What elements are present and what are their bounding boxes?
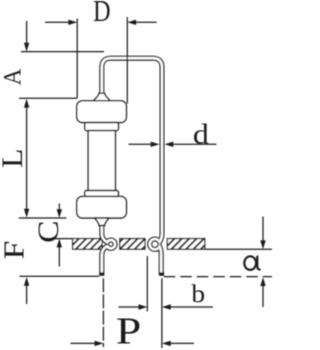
dimension C: bottom arrow pointing up at board top bbox=[58, 247, 60, 267]
dimension d: left arrow bbox=[129, 143, 153, 145]
dimension a: bottom arrow pointing up at tip line bbox=[262, 284, 264, 307]
dimension A: top arrow pointing down bbox=[26, 21, 28, 44]
dimension b: right arrow + tail bbox=[170, 306, 214, 308]
wire: bottom kinked lead through PCB (left) bbox=[102, 224, 115, 275]
component body: upper neck bbox=[85, 123, 119, 131]
svg-text:D: D bbox=[93, 0, 110, 29]
dimension D: left arrow bbox=[45, 21, 70, 23]
dimension d: right arrow + underline tail bbox=[172, 143, 217, 145]
dimension a: top arrow pointing down at board bottom bbox=[262, 217, 264, 242]
component body: bottom terminal nub bbox=[95, 218, 108, 226]
wire: long kinked lead from top terminal through PCB (right) bbox=[102, 58, 162, 275]
dimension L: bottom extension line (cap bottom) bbox=[19, 217, 67, 219]
dimension C: top arrow pointing down at y=218 bbox=[58, 204, 60, 212]
svg-text:C: C bbox=[32, 220, 65, 242]
lead tip reference line (right, dashed) bbox=[164, 276, 272, 278]
dimension P: extension line below left lead bbox=[102, 278, 104, 347]
svg-text:b: b bbox=[191, 280, 205, 308]
svg-text:L: L bbox=[0, 149, 29, 168]
component body: bottom cap bbox=[77, 196, 127, 218]
svg-text:d: d bbox=[193, 118, 209, 150]
dimension b: extension line from kink left edge bbox=[146, 256, 148, 312]
component body: cylinder bbox=[88, 131, 115, 191]
dimension D: extension line right (x=127.3) bbox=[126, 17, 128, 104]
component body: lower neck bbox=[85, 191, 119, 197]
svg-text:P: P bbox=[116, 311, 141, 350]
dimension P: right arrow + tail bbox=[170, 342, 195, 344]
lead tip extension line (left, solid) bbox=[20, 275, 100, 277]
dimension P: extension line below right lead bbox=[161, 278, 163, 348]
bottom-left arrow pointing up at tip line bbox=[26, 284, 28, 304]
dimension A: bottom extension line (cap top) bbox=[19, 97, 77, 99]
dimension P: left arrow bbox=[71, 342, 97, 344]
dimension D: right arrow bbox=[135, 21, 157, 23]
label a (single-storey, drawn) bbox=[244, 256, 260, 270]
dimension A: top extension line (lead top) bbox=[21, 51, 104, 53]
svg-text:A: A bbox=[0, 68, 27, 85]
dimension C: bottom extension line (board top) bbox=[52, 238, 73, 240]
dimension a: board bottom extension line to right bbox=[205, 248, 272, 250]
dimension D: extension line left (x=77.2) bbox=[76, 19, 78, 99]
lead tip (right) bbox=[159, 272, 164, 275]
dimension b: left arrow bbox=[119, 306, 141, 308]
dimension L: dimension line with arrows both ends bbox=[26, 106, 28, 211]
component body: top cap bbox=[77, 101, 127, 123]
lead tip (left) bbox=[99, 272, 104, 275]
component body: top terminal nub bbox=[94, 93, 109, 101]
svg-text:F: F bbox=[0, 241, 30, 260]
